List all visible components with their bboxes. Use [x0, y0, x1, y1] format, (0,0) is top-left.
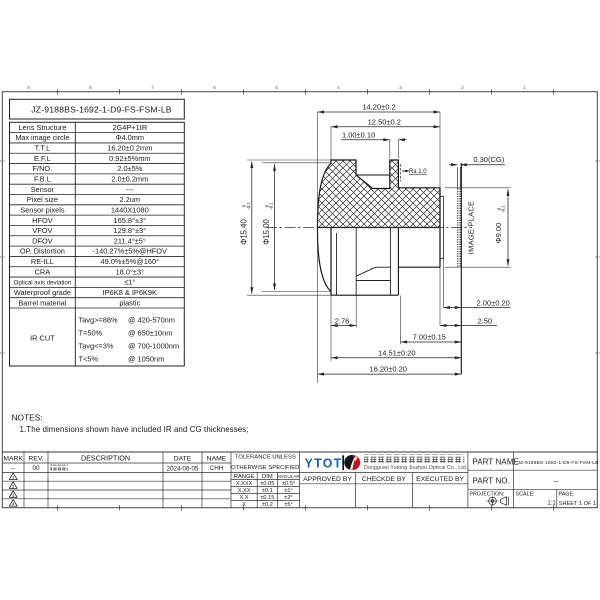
dimension Φ9.00 (rear tube) — [445, 187, 511, 189]
svg-text:Pixel size: Pixel size — [27, 195, 58, 204]
svg-text:X.XX: X.XX — [238, 488, 251, 494]
svg-text:@ 420-570nm: @ 420-570nm — [128, 316, 175, 325]
svg-text:Waterproof grade: Waterproof grade — [14, 288, 71, 297]
svg-text:X.XXX: X.XXX — [236, 481, 253, 487]
svg-text:1440X1080: 1440X1080 — [111, 205, 149, 214]
svg-text:16.20±0.2mm: 16.20±0.2mm — [107, 144, 152, 153]
svg-text:JZ-9188BS-1692-1-D9-FS-FSM-LB: JZ-9188BS-1692-1-D9-FS-FSM-LB — [31, 105, 172, 115]
lens specification table — [10, 122, 185, 366]
svg-text:Sensor: Sensor — [31, 185, 55, 194]
svg-text:2: 2 — [12, 484, 15, 489]
svg-text:14.51±0.20: 14.51±0.20 — [378, 348, 415, 357]
svg-text:T<5%: T<5% — [79, 355, 99, 364]
svg-text:MARK: MARK — [3, 456, 23, 463]
svg-text:Dongguan Yutong Jiuzhou Optica: Dongguan Yutong Jiuzhou Optical Co., Ltd… — [364, 465, 467, 471]
dimension Φ15.40 (head) — [247, 159, 331, 161]
svg-text:T=50%: T=50% — [79, 329, 103, 338]
svg-text:2.76: 2.76 — [335, 316, 350, 325]
svg-text:0.30(CG): 0.30(CG) — [473, 155, 504, 164]
svg-text:APPROVED BY: APPROVED BY — [303, 476, 352, 483]
svg-text:CHECKDE BY: CHECKDE BY — [362, 476, 407, 483]
svg-text:JZ-9188BS-1692-1-D9-FS-FSM-LB: JZ-9188BS-1692-1-D9-FS-FSM-LB — [518, 460, 599, 466]
head bottom face — [331, 294, 398, 296]
chamfer edge below axis — [336, 233, 338, 295]
svg-text:F/NO.: F/NO. — [33, 164, 53, 173]
svg-text:plastic: plastic — [119, 298, 140, 307]
front lens dome outline below axis — [317, 228, 330, 292]
svg-text:HFOV: HFOV — [32, 216, 53, 225]
svg-text:RE-ILL: RE-ILL — [31, 257, 54, 266]
svg-text:--: -- — [554, 478, 559, 485]
svg-text:X.X: X.X — [240, 495, 249, 501]
svg-text:≤1°: ≤1° — [124, 278, 135, 287]
cover glass dashed outline — [457, 167, 459, 189]
svg-text:-0.1: -0.1 — [269, 202, 274, 210]
svg-text:±0.2: ±0.2 — [262, 502, 273, 508]
svg-text:Tavg<=3%: Tavg<=3% — [79, 342, 114, 351]
dimension 0.30(CG) cover glass — [449, 164, 458, 166]
svg-text:SHEET 1 OF 1: SHEET 1 OF 1 — [559, 501, 596, 507]
svg-text:16.20±0.20: 16.20±0.20 — [369, 365, 406, 374]
svg-text:129.8°±3°: 129.8°±3° — [114, 226, 147, 235]
third angle projection symbol — [487, 496, 509, 506]
dimension 14.20±0.2 — [317, 112, 319, 383]
logo emblem — [344, 455, 360, 470]
svg-text:PAGE:: PAGE: — [559, 492, 575, 498]
svg-text:±0.05: ±0.05 — [260, 481, 274, 487]
rear boss — [440, 197, 444, 259]
svg-text:REV.: REV. — [28, 456, 43, 463]
svg-text:-0.1: -0.1 — [501, 205, 506, 213]
svg-text:DESCRIPTION: DESCRIPTION — [81, 454, 130, 463]
svg-text:Φ15.00: Φ15.00 — [262, 218, 271, 244]
svg-text:2024-06-05: 2024-06-05 — [167, 465, 199, 472]
svg-text:IR CUT: IR CUT — [30, 334, 55, 343]
svg-text:2.0±0.2mm: 2.0±0.2mm — [111, 174, 148, 183]
svg-text:PART NAME: PART NAME — [473, 457, 519, 466]
revision mark triangles — [9, 473, 17, 480]
svg-text:E.F.L: E.F.L — [34, 154, 51, 163]
svg-text:DATE: DATE — [174, 456, 192, 463]
rear tube bottom face — [398, 266, 440, 268]
svg-text:-0.1: -0.1 — [246, 202, 251, 210]
dimension 7.00±0.15 — [400, 296, 402, 345]
svg-text:1.00±0.10: 1.00±0.10 — [342, 130, 375, 139]
optical axis centerline — [266, 227, 472, 229]
svg-text:±0.1: ±0.1 — [262, 488, 273, 494]
svg-text:2.50: 2.50 — [477, 317, 492, 326]
zone ticks top — [58, 89, 554, 510]
dimension 14.51±0.20 — [331, 357, 461, 359]
svg-text:YTOT: YTOT — [305, 456, 343, 470]
svg-text:IP6K8 & IP6K9K: IP6K8 & IP6K9K — [103, 288, 157, 297]
svg-text:@ 650±10nm: @ 650±10nm — [128, 329, 172, 338]
front face of barrel head — [330, 228, 332, 296]
dimension Φ15.00 (dome) — [262, 162, 330, 164]
svg-text:CRA: CRA — [35, 267, 51, 276]
svg-text:Barrel material: Barrel material — [18, 298, 66, 307]
svg-text:CHH: CHH — [210, 465, 224, 472]
svg-text:00: 00 — [32, 465, 40, 472]
svg-text:14.20±0.2: 14.20±0.2 — [362, 103, 395, 112]
svg-text:OP. Distortion: OP. Distortion — [20, 247, 65, 256]
svg-text:Max image circle: Max image circle — [15, 133, 69, 142]
svg-text:SCALE:: SCALE: — [516, 492, 535, 498]
svg-text:2.2um: 2.2um — [120, 195, 141, 204]
part number header box — [10, 99, 185, 119]
svg-text:F.B.L: F.B.L — [34, 174, 51, 183]
svg-text:PART NO.: PART NO. — [473, 477, 511, 486]
svg-text:DIM: DIM — [262, 474, 273, 480]
svg-text:T.T.L: T.T.L — [35, 144, 51, 153]
svg-text:±0.15: ±0.15 — [260, 495, 274, 501]
svg-text:211.4°±5°: 211.4°±5° — [114, 236, 146, 245]
svg-text:EXECUTED BY: EXECUTED BY — [416, 476, 464, 483]
svg-text:1.The dimensions shown have in: 1.The dimensions shown have included IR … — [20, 425, 249, 434]
rear step edges below axis — [389, 228, 391, 296]
svg-text:49.0%±5%@160°: 49.0%±5%@160° — [101, 257, 160, 266]
dimension 2.50 — [439, 267, 441, 325]
dimension 1.00±0.10 (rear wall thickness) — [389, 140, 391, 158]
svg-text:NOTES:: NOTES: — [12, 413, 43, 423]
svg-text:Φ4.0mm: Φ4.0mm — [116, 133, 144, 142]
svg-text:TOLERANCE UNLESS: TOLERANCE UNLESS — [235, 455, 296, 461]
svg-text:Lens Structure: Lens Structure — [18, 123, 66, 132]
svg-text:PROJECTION:: PROJECTION: — [470, 492, 505, 498]
border frame — [2, 92, 597, 508]
svg-text:IMAGE PLACE: IMAGE PLACE — [466, 201, 475, 254]
svg-text:Optical axis deviation: Optical axis deviation — [14, 280, 72, 287]
svg-text:18.0°±3°: 18.0°±3° — [116, 267, 145, 276]
image plane reference line — [460, 163, 462, 374]
svg-text:Sensor pixels: Sensor pixels — [20, 205, 65, 214]
svg-text:Φ9.00: Φ9.00 — [494, 223, 503, 244]
dimension 2.76 — [355, 295, 357, 327]
svg-text:2.0±5%: 2.0±5% — [117, 164, 142, 173]
surface note Ra 1.0 — [400, 164, 402, 182]
svg-text:±2°: ±2° — [284, 495, 292, 501]
svg-text:-140.27%±5%@HFOV: -140.27%±5%@HFOV — [93, 247, 167, 256]
logo divider bar — [342, 455, 344, 470]
rear tube rear face below axis — [439, 228, 441, 268]
svg-text:@ 700-1000nm: @ 700-1000nm — [128, 342, 179, 351]
svg-text:2G4P+1IR: 2G4P+1IR — [112, 123, 147, 132]
svg-text:3: 3 — [12, 493, 15, 498]
svg-text:±5°: ±5° — [284, 502, 292, 508]
svg-text:±1°: ±1° — [284, 488, 292, 494]
svg-text:0.92±5%mm: 0.92±5%mm — [109, 154, 150, 163]
svg-text:RANGE: RANGE — [234, 474, 255, 480]
svg-text:4: 4 — [12, 501, 15, 506]
svg-text:ANGULAR: ANGULAR — [277, 474, 300, 479]
svg-text:Φ15.40: Φ15.40 — [240, 218, 249, 244]
svg-text:12.50±0.2: 12.50±0.2 — [368, 117, 401, 126]
svg-text:1:1: 1:1 — [547, 501, 556, 507]
svg-text:7.00±0.15: 7.00±0.15 — [413, 333, 446, 342]
svg-text:VFOV: VFOV — [32, 226, 52, 235]
dimension 16.20±0.20 — [318, 373, 462, 375]
notch left edge below axis — [355, 228, 357, 296]
dimension 2.00±0.20 — [443, 259, 445, 308]
svg-text:Tavg>=88%: Tavg>=88% — [79, 316, 118, 325]
svg-text:@ 1050nm: @ 1050nm — [128, 355, 164, 364]
svg-text:NAME: NAME — [207, 456, 227, 463]
svg-text:1: 1 — [12, 475, 15, 480]
zone ticks sides — [0, 161, 600, 353]
lens barrel sectioned body (hatched) — [317, 160, 440, 228]
svg-text:DFOV: DFOV — [32, 236, 53, 245]
svg-text:2.00±0.20: 2.00±0.20 — [477, 299, 510, 308]
svg-text:165.8°±3°: 165.8°±3° — [114, 216, 147, 225]
title block — [2, 452, 597, 508]
mid-barrel step lines below axis — [356, 280, 390, 282]
groove bottom visible edge — [356, 174, 390, 176]
svg-text:±0.5°: ±0.5° — [282, 481, 295, 487]
svg-text:--: -- — [11, 465, 15, 472]
svg-text:---: --- — [126, 185, 134, 194]
company name (Chinese) — [364, 455, 464, 463]
svg-text:OTHERWISE SPECIFIED: OTHERWISE SPECIFIED — [231, 465, 299, 471]
dimension 12.50±0.2 — [330, 127, 332, 160]
svg-text:X: X — [242, 502, 246, 508]
